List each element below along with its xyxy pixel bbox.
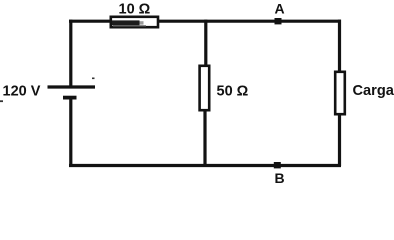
svg-text:10 Ω: 10 Ω — [119, 2, 151, 18]
resistor R1 interior smudge — [112, 20, 140, 25]
resistor R1 box 10 ohm — [111, 17, 158, 27]
wire left upper — [69, 20, 72, 88]
svg-text:B: B — [274, 170, 284, 186]
wire middle lower — [203, 110, 206, 166]
wire bottom — [69, 164, 341, 167]
battery V1 negative plate — [63, 96, 77, 100]
resistor R2 box 50 ohm — [200, 66, 210, 110]
scan speck near battery — [92, 78, 95, 80]
scan dash at left edge — [0, 100, 3, 102]
wire left lower — [69, 97, 72, 166]
battery V1 positive plate — [48, 85, 96, 88]
svg-text:50 Ω: 50 Ω — [217, 84, 249, 100]
svg-text:Carga: Carga — [353, 83, 394, 99]
load box Carga — [335, 72, 345, 114]
wire right upper — [338, 20, 341, 72]
wire top — [69, 20, 341, 23]
wire middle upper — [204, 20, 207, 66]
svg-text:A: A — [274, 1, 284, 17]
node B junction dot — [274, 162, 281, 168]
node A junction dot — [275, 18, 282, 24]
svg-text:120 V: 120 V — [3, 84, 41, 100]
wire right lower — [338, 114, 341, 166]
